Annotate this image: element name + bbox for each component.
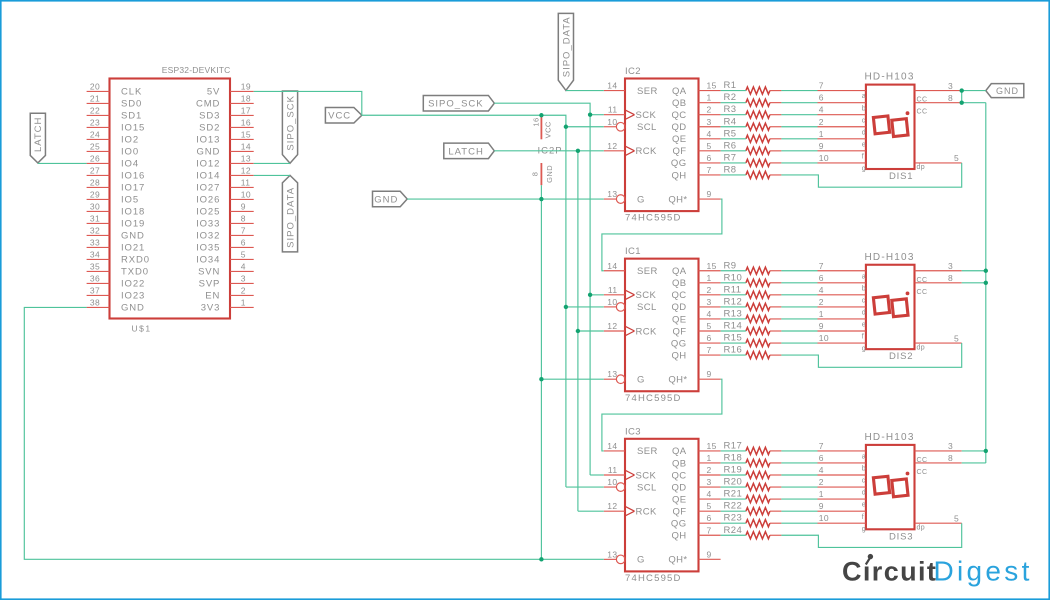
- svg-text:9: 9: [819, 321, 824, 331]
- svg-text:IO15: IO15: [121, 123, 145, 134]
- svg-text:DIS1: DIS1: [889, 171, 913, 182]
- svg-text:11: 11: [608, 105, 618, 115]
- svg-text:QG: QG: [671, 338, 687, 349]
- svg-text:9: 9: [707, 549, 712, 559]
- svg-text:IO4: IO4: [121, 159, 139, 170]
- svg-text:GND: GND: [196, 147, 220, 158]
- svg-text:R2: R2: [724, 92, 737, 103]
- svg-text:7: 7: [819, 261, 824, 271]
- svg-text:QC: QC: [671, 290, 686, 301]
- svg-text:d: d: [862, 310, 866, 317]
- svg-text:2: 2: [707, 285, 712, 295]
- svg-text:R18: R18: [724, 452, 743, 463]
- svg-text:5: 5: [241, 250, 246, 260]
- svg-text:SIPO_DATA: SIPO_DATA: [561, 16, 572, 77]
- svg-text:5: 5: [707, 321, 712, 331]
- svg-text:GND: GND: [996, 86, 1019, 96]
- svg-text:d: d: [862, 129, 866, 136]
- svg-text:10: 10: [819, 333, 829, 343]
- svg-text:QF: QF: [673, 326, 687, 337]
- svg-text:7: 7: [707, 345, 712, 355]
- svg-text:RCK: RCK: [636, 506, 658, 517]
- svg-text:CC: CC: [917, 469, 928, 476]
- svg-text:4: 4: [819, 285, 824, 295]
- svg-text:4: 4: [819, 105, 824, 115]
- svg-text:ESP32-DEVKITC: ESP32-DEVKITC: [162, 65, 231, 75]
- svg-text:12: 12: [607, 501, 617, 511]
- svg-text:5: 5: [707, 141, 712, 151]
- svg-text:9: 9: [707, 369, 712, 379]
- svg-text:SER: SER: [637, 86, 658, 97]
- svg-text:9: 9: [241, 202, 246, 212]
- svg-text:10: 10: [241, 190, 251, 200]
- svg-text:5V: 5V: [207, 87, 220, 98]
- svg-text:14: 14: [607, 441, 617, 451]
- svg-text:SVP: SVP: [199, 279, 221, 290]
- svg-text:13: 13: [607, 549, 617, 559]
- svg-text:15: 15: [241, 130, 251, 140]
- svg-text:10: 10: [607, 117, 617, 127]
- svg-text:14: 14: [607, 261, 617, 271]
- svg-text:dp: dp: [917, 164, 926, 171]
- svg-text:IO26: IO26: [196, 195, 220, 206]
- svg-text:IO33: IO33: [196, 219, 220, 230]
- svg-text:24: 24: [90, 130, 100, 140]
- svg-text:35: 35: [90, 262, 100, 272]
- svg-text:QF: QF: [673, 146, 687, 157]
- svg-text:QF: QF: [673, 506, 687, 517]
- svg-text:IO16: IO16: [121, 171, 145, 182]
- svg-text:QG: QG: [671, 519, 687, 530]
- svg-text:SER: SER: [637, 446, 658, 457]
- svg-text:3: 3: [948, 441, 953, 451]
- svg-text:G: G: [637, 375, 645, 386]
- svg-text:25: 25: [90, 142, 100, 152]
- svg-text:SIPO_SCK: SIPO_SCK: [428, 99, 484, 110]
- svg-text:38: 38: [90, 298, 100, 308]
- svg-text:1: 1: [707, 273, 712, 283]
- svg-text:5: 5: [954, 513, 959, 523]
- svg-text:IO17: IO17: [121, 183, 145, 194]
- svg-text:18: 18: [241, 94, 251, 104]
- svg-text:RCK: RCK: [636, 326, 658, 337]
- svg-text:8: 8: [948, 93, 953, 103]
- svg-text:1: 1: [241, 298, 246, 308]
- svg-text:14: 14: [607, 81, 617, 91]
- svg-text:6: 6: [707, 153, 712, 163]
- svg-text:1: 1: [819, 309, 824, 319]
- svg-text:8: 8: [531, 172, 540, 177]
- svg-text:12: 12: [607, 321, 617, 331]
- svg-text:6: 6: [707, 333, 712, 343]
- svg-text:R7: R7: [724, 152, 737, 163]
- svg-text:12: 12: [241, 166, 251, 176]
- svg-text:LATCH: LATCH: [448, 146, 483, 157]
- svg-text:11: 11: [608, 465, 618, 475]
- svg-text:SCL: SCL: [637, 482, 657, 493]
- svg-text:e: e: [862, 502, 866, 509]
- svg-text:CC: CC: [917, 277, 928, 284]
- svg-text:RXD0: RXD0: [121, 255, 150, 266]
- svg-text:3: 3: [948, 261, 953, 271]
- svg-text:2: 2: [819, 477, 824, 487]
- svg-text:QA: QA: [672, 266, 687, 277]
- svg-text:SD2: SD2: [199, 123, 220, 134]
- svg-text:IO12: IO12: [196, 159, 220, 170]
- svg-text:IO34: IO34: [196, 255, 220, 266]
- svg-text:HD-H103: HD-H103: [865, 432, 915, 443]
- svg-text:QA: QA: [672, 446, 687, 457]
- svg-text:IC1: IC1: [625, 246, 641, 257]
- svg-text:2: 2: [819, 297, 824, 307]
- svg-text:1: 1: [707, 453, 712, 463]
- svg-text:R10: R10: [724, 272, 743, 283]
- svg-text:QD: QD: [671, 302, 686, 313]
- svg-text:22: 22: [90, 106, 100, 116]
- svg-text:3: 3: [707, 477, 712, 487]
- svg-text:36: 36: [90, 274, 100, 284]
- svg-text:IO5: IO5: [121, 195, 139, 206]
- svg-text:31: 31: [90, 214, 100, 224]
- svg-text:27: 27: [90, 166, 100, 176]
- svg-text:10: 10: [819, 153, 829, 163]
- svg-text:IO32: IO32: [196, 231, 220, 242]
- svg-text:QC: QC: [671, 110, 686, 121]
- svg-text:2: 2: [819, 117, 824, 127]
- svg-text:R14: R14: [724, 321, 743, 332]
- svg-text:IO25: IO25: [196, 207, 220, 218]
- svg-text:R9: R9: [724, 260, 737, 271]
- svg-text:3: 3: [707, 117, 712, 127]
- svg-text:1: 1: [819, 489, 824, 499]
- svg-text:dp: dp: [917, 344, 926, 351]
- svg-text:Digest: Digest: [934, 556, 1033, 587]
- svg-text:QH: QH: [671, 531, 686, 542]
- svg-text:IO23: IO23: [121, 291, 145, 302]
- svg-text:a: a: [862, 273, 866, 280]
- svg-text:IC3: IC3: [625, 426, 641, 437]
- svg-text:SVN: SVN: [198, 267, 220, 278]
- svg-text:R11: R11: [724, 284, 742, 295]
- svg-text:G: G: [637, 555, 645, 566]
- svg-text:R13: R13: [724, 308, 743, 319]
- svg-text:IO0: IO0: [121, 147, 139, 158]
- svg-text:R16: R16: [724, 345, 743, 356]
- svg-text:14: 14: [241, 142, 251, 152]
- svg-text:RCK: RCK: [636, 146, 658, 157]
- svg-text:IC2: IC2: [625, 66, 641, 77]
- svg-text:15: 15: [707, 261, 717, 271]
- svg-text:QE: QE: [672, 314, 687, 325]
- svg-text:R3: R3: [724, 104, 737, 115]
- svg-text:IO2: IO2: [121, 135, 139, 146]
- svg-text:DIS2: DIS2: [889, 351, 913, 362]
- svg-text:R24: R24: [724, 525, 743, 536]
- svg-text:R19: R19: [724, 465, 743, 476]
- svg-text:QC: QC: [671, 470, 686, 481]
- svg-text:HD-H103: HD-H103: [865, 72, 915, 83]
- svg-text:b: b: [862, 105, 866, 112]
- svg-text:4: 4: [707, 129, 712, 139]
- svg-text:GND: GND: [121, 231, 145, 242]
- svg-text:f: f: [862, 334, 864, 341]
- svg-text:74HC595D: 74HC595D: [625, 393, 682, 404]
- svg-text:LATCH: LATCH: [33, 117, 44, 152]
- svg-text:GND: GND: [121, 303, 145, 314]
- svg-text:6: 6: [819, 273, 824, 283]
- svg-text:2: 2: [707, 465, 712, 475]
- svg-text:dp: dp: [917, 525, 926, 532]
- svg-text:QH*: QH*: [668, 194, 687, 205]
- svg-text:19: 19: [241, 82, 251, 92]
- svg-text:7: 7: [707, 165, 712, 175]
- svg-text:IO14: IO14: [196, 171, 220, 182]
- svg-text:QH: QH: [671, 170, 686, 181]
- svg-text:QA: QA: [672, 86, 687, 97]
- svg-text:12: 12: [607, 141, 617, 151]
- svg-text:DIS3: DIS3: [889, 531, 913, 542]
- svg-text:CMD: CMD: [196, 99, 220, 110]
- svg-text:2: 2: [707, 105, 712, 115]
- svg-text:g: g: [862, 346, 866, 353]
- svg-text:SD3: SD3: [199, 111, 220, 122]
- svg-text:QD: QD: [671, 482, 686, 493]
- svg-text:TXD0: TXD0: [121, 267, 149, 278]
- svg-text:SD0: SD0: [121, 99, 142, 110]
- svg-text:CC: CC: [917, 457, 928, 464]
- svg-text:e: e: [862, 322, 866, 329]
- svg-text:15: 15: [707, 81, 717, 91]
- svg-text:EN: EN: [205, 291, 220, 302]
- svg-text:4: 4: [707, 489, 712, 499]
- svg-text:VCC: VCC: [544, 121, 553, 138]
- svg-text:g: g: [862, 526, 866, 533]
- svg-text:IO21: IO21: [121, 243, 145, 254]
- svg-text:10: 10: [607, 297, 617, 307]
- svg-text:IO22: IO22: [121, 279, 145, 290]
- svg-text:28: 28: [90, 178, 100, 188]
- svg-text:7: 7: [241, 226, 246, 236]
- svg-text:QE: QE: [672, 494, 687, 505]
- svg-text:8: 8: [948, 453, 953, 463]
- svg-text:c: c: [862, 117, 866, 124]
- svg-text:74HC595D: 74HC595D: [625, 213, 682, 224]
- svg-text:R8: R8: [724, 164, 737, 175]
- svg-text:74HC595D: 74HC595D: [625, 573, 682, 584]
- svg-text:29: 29: [90, 190, 100, 200]
- svg-text:f: f: [862, 153, 864, 160]
- svg-text:9: 9: [707, 189, 712, 199]
- svg-text:g: g: [862, 166, 866, 173]
- svg-text:f: f: [862, 514, 864, 521]
- svg-text:QH*: QH*: [668, 375, 687, 386]
- svg-text:R23: R23: [724, 513, 743, 524]
- svg-text:37: 37: [90, 286, 100, 296]
- svg-text:CC: CC: [917, 97, 928, 104]
- svg-text:1: 1: [707, 93, 712, 103]
- svg-text:6: 6: [819, 93, 824, 103]
- svg-text:7: 7: [819, 441, 824, 451]
- svg-text:QD: QD: [671, 122, 686, 133]
- svg-text:10: 10: [819, 513, 829, 523]
- svg-text:a: a: [862, 93, 866, 100]
- svg-text:d: d: [862, 490, 866, 497]
- svg-text:R15: R15: [724, 333, 743, 344]
- svg-text:3: 3: [707, 297, 712, 307]
- svg-text:c: c: [862, 478, 866, 485]
- svg-text:13: 13: [607, 189, 617, 199]
- svg-text:U$1: U$1: [132, 324, 152, 334]
- svg-text:5: 5: [954, 333, 959, 343]
- svg-text:R22: R22: [724, 501, 743, 512]
- svg-text:SCK: SCK: [636, 110, 657, 121]
- svg-text:6: 6: [241, 238, 246, 248]
- svg-text:17: 17: [241, 106, 251, 116]
- svg-text:QH*: QH*: [668, 555, 687, 566]
- svg-text:G: G: [637, 194, 645, 205]
- svg-text:11: 11: [608, 285, 618, 295]
- svg-text:10: 10: [607, 477, 617, 487]
- svg-text:9: 9: [819, 501, 824, 511]
- svg-text:3: 3: [241, 274, 246, 284]
- svg-text:Cırcuit: Cırcuit: [842, 557, 937, 587]
- svg-text:QB: QB: [672, 458, 687, 469]
- svg-text:3V3: 3V3: [201, 303, 221, 314]
- svg-text:16: 16: [241, 118, 251, 128]
- svg-text:1: 1: [819, 129, 824, 139]
- svg-text:IO13: IO13: [196, 135, 220, 146]
- svg-text:SD1: SD1: [121, 111, 142, 122]
- svg-text:6: 6: [819, 453, 824, 463]
- svg-text:7: 7: [819, 81, 824, 91]
- svg-text:16: 16: [532, 117, 541, 126]
- svg-text:QE: QE: [672, 134, 687, 145]
- svg-text:R12: R12: [724, 296, 743, 307]
- svg-text:23: 23: [90, 118, 100, 128]
- svg-text:13: 13: [607, 369, 617, 379]
- svg-text:CC: CC: [917, 109, 928, 116]
- svg-text:2: 2: [241, 286, 246, 296]
- svg-text:5: 5: [954, 153, 959, 163]
- svg-text:GND: GND: [545, 165, 554, 183]
- svg-text:R4: R4: [724, 116, 737, 127]
- svg-text:QH: QH: [671, 350, 686, 361]
- svg-text:13: 13: [241, 154, 251, 164]
- svg-text:8: 8: [241, 214, 246, 224]
- svg-text:CLK: CLK: [121, 87, 142, 98]
- svg-text:6: 6: [707, 513, 712, 523]
- svg-text:R21: R21: [724, 489, 743, 500]
- svg-text:R20: R20: [724, 477, 743, 488]
- svg-text:26: 26: [90, 154, 100, 164]
- svg-text:21: 21: [90, 94, 100, 104]
- svg-text:R1: R1: [724, 80, 737, 91]
- svg-text:QG: QG: [671, 158, 687, 169]
- svg-text:c: c: [862, 297, 866, 304]
- svg-text:IO35: IO35: [196, 243, 220, 254]
- svg-text:GND: GND: [374, 194, 398, 205]
- svg-text:SIPO_DATA: SIPO_DATA: [285, 187, 296, 248]
- svg-text:e: e: [862, 141, 866, 148]
- svg-text:CC: CC: [917, 289, 928, 296]
- svg-text:HD-H103: HD-H103: [865, 252, 915, 263]
- svg-text:4: 4: [241, 262, 246, 272]
- svg-text:30: 30: [90, 202, 100, 212]
- svg-text:R6: R6: [724, 140, 737, 151]
- svg-text:7: 7: [707, 525, 712, 535]
- svg-text:SCK: SCK: [636, 290, 657, 301]
- svg-text:4: 4: [819, 465, 824, 475]
- svg-text:34: 34: [90, 250, 100, 260]
- svg-text:QB: QB: [672, 98, 687, 109]
- svg-text:b: b: [862, 285, 866, 292]
- svg-text:VCC: VCC: [328, 111, 351, 122]
- svg-text:SER: SER: [637, 266, 658, 277]
- svg-text:5: 5: [707, 501, 712, 511]
- svg-text:a: a: [862, 454, 866, 461]
- svg-text:11: 11: [241, 178, 251, 188]
- svg-text:b: b: [862, 466, 866, 473]
- svg-text:SCK: SCK: [636, 470, 657, 481]
- svg-text:8: 8: [948, 273, 953, 283]
- svg-text:20: 20: [90, 82, 100, 92]
- svg-text:4: 4: [707, 309, 712, 319]
- svg-text:IO27: IO27: [196, 183, 220, 194]
- svg-text:IO18: IO18: [121, 207, 145, 218]
- svg-text:9: 9: [819, 141, 824, 151]
- svg-text:SCL: SCL: [637, 302, 657, 313]
- svg-text:IO19: IO19: [121, 219, 145, 230]
- svg-text:QB: QB: [672, 278, 687, 289]
- svg-text:32: 32: [90, 226, 100, 236]
- svg-text:33: 33: [90, 238, 100, 248]
- svg-text:R17: R17: [724, 440, 743, 451]
- svg-text:SIPO_SCK: SIPO_SCK: [285, 95, 296, 151]
- svg-text:15: 15: [707, 441, 717, 451]
- svg-text:R5: R5: [724, 128, 737, 139]
- svg-text:SCL: SCL: [637, 122, 657, 133]
- svg-text:3: 3: [948, 81, 953, 91]
